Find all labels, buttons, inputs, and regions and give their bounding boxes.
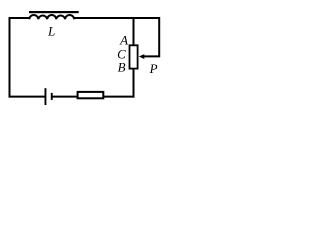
battery short plate — [51, 93, 53, 100]
wire: top-right segment, right side down to wiper arrow shaft — [74, 18, 160, 56]
svg-text:P: P — [149, 61, 158, 76]
wire from top wire down to potentiometer terminal A — [133, 18, 135, 46]
wire: resistor to potentiometer bottom corner — [103, 96, 134, 98]
resistor R — [78, 92, 104, 98]
inductor core bar — [29, 11, 79, 13]
battery long plate — [45, 88, 47, 105]
svg-text:B: B — [118, 59, 126, 74]
wiper arrow head P — [139, 54, 144, 59]
wire: top-left segment, left side, bottom segment to battery — [10, 18, 45, 97]
inductor L coil — [29, 15, 74, 19]
potentiometer body rectangle — [130, 45, 138, 68]
wire from potentiometer terminal B down to bottom wire — [133, 70, 135, 98]
wire: battery to resistor — [53, 96, 79, 98]
svg-text:L: L — [47, 23, 55, 38]
svg-text:A: A — [119, 32, 128, 47]
